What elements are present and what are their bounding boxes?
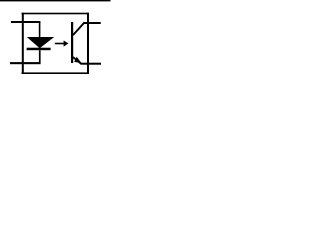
background (0, 0, 115, 92)
transistor Q1 collector diagonal (72, 22, 84, 36)
optocoupler box U1 right edge (87, 13, 89, 74)
optocoupler box U1 top edge (22, 13, 90, 15)
optocoupler box U1 left edge (22, 13, 24, 74)
wire emitter pin (81, 63, 102, 65)
arrow head (64, 40, 69, 46)
wire cathode pin (10, 62, 41, 64)
wire top rail (0, 0, 111, 1)
optocoupler box U1 bottom edge (22, 72, 90, 74)
wire cathode vertical (39, 50, 41, 63)
transistor Q1 base bar (71, 22, 73, 63)
arrow shaft (55, 43, 64, 45)
transistor Q1 emitter diagonal (72, 56, 82, 64)
LED D1 triangle (27, 37, 54, 48)
LED D1 cathode bar (27, 48, 51, 51)
transistor Q1 emitter arrowhead (74, 57, 81, 63)
wire anode pin (11, 21, 40, 23)
wire anode vertical (39, 22, 41, 38)
wire collector pin (83, 22, 100, 24)
